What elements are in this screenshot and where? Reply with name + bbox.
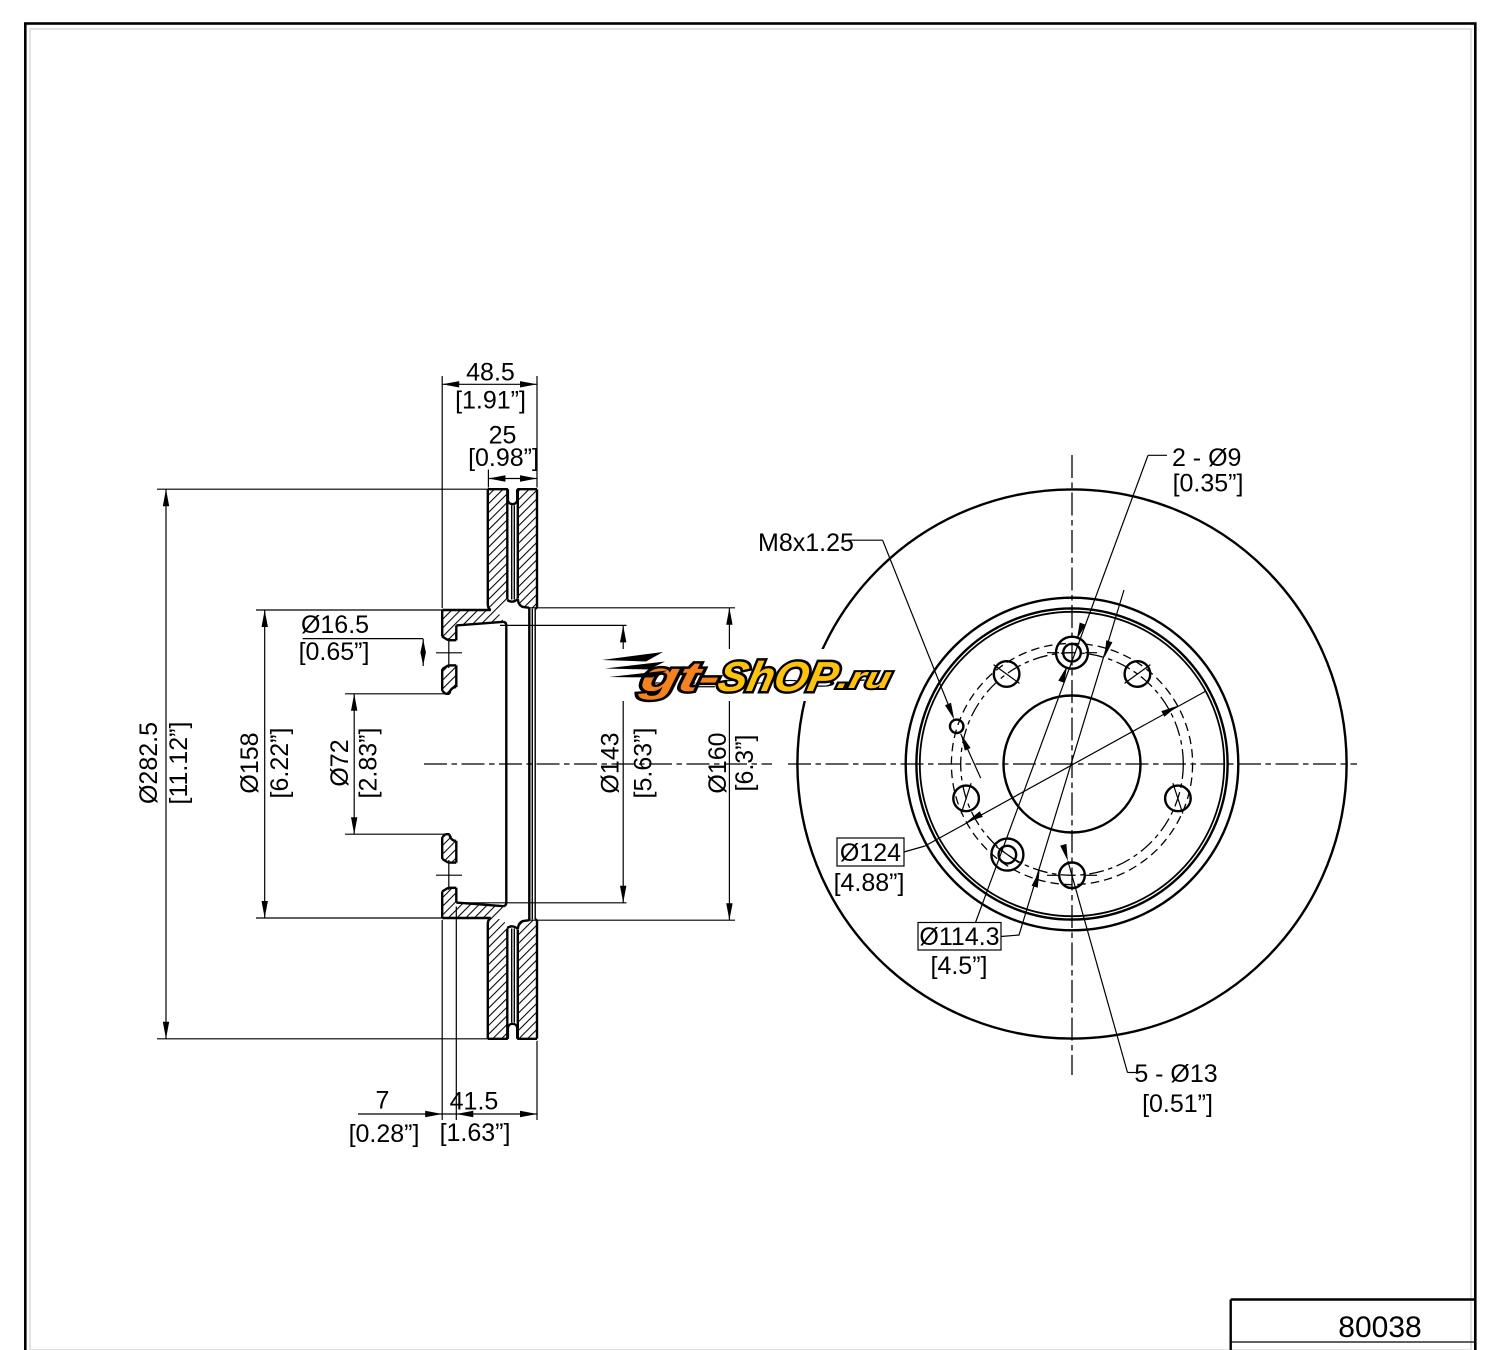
bore fillet [450,687,457,694]
dim dia160 drum lip [529,607,735,609]
svg-text:[0.51”]: [0.51”] [1142,1090,1213,1118]
centermark tick in lug hole 54 deg [1125,665,1151,684]
upper bolt hole centermark [436,652,462,654]
flange top edge [442,917,491,919]
svg-text:[1.91”]: [1.91”] [455,387,526,415]
svg-text:[11.12”]: [11.12”] [165,722,193,805]
svg-text:[5.63”]: [5.63”] [630,728,658,799]
lug hole dia13 at 342 deg [1165,786,1191,812]
arrow at M8 hole on dia124 [961,734,981,778]
svg-text:.ru: .ru [835,662,895,695]
dim dia72 bore [345,693,445,695]
svg-text:[2.83”]: [2.83”] [354,728,382,799]
centermark tick in lug hole 126 deg [994,665,1020,684]
circle dia158 [920,612,1224,916]
bottom hole centermark ticks [1047,874,1059,876]
svg-text:M8x1.25: M8x1.25 [758,529,854,557]
drum outer surface [528,608,530,920]
leader 2 - dia9 [1148,454,1167,456]
friction band inner circle [906,598,1239,931]
right view horizontal centerline [788,763,1357,765]
svg-text:[1.63”]: [1.63”] [440,1119,511,1147]
lug hole dia13 at 126 deg [994,661,1020,687]
section hatch: lower outboard friction plate [518,920,537,1039]
disc bottom edge [488,1038,508,1040]
svg-text:48.5: 48.5 [466,359,515,387]
svg-text:Ø160: Ø160 [704,732,732,793]
dim dia158 [256,609,442,611]
dim 48.5 overall width [441,376,443,608]
bolt hole walls [448,887,456,889]
section hatch: lower hat flange and wall [442,888,503,918]
dim dia114.3 diagonal [1001,590,1124,937]
vent slot floor [507,926,518,929]
svg-text:[0.28”]: [0.28”] [349,1120,420,1148]
svg-text:[0.98”]: [0.98”] [468,444,539,472]
logo speed lines [602,652,663,662]
leader 5 - dia13 [1128,1072,1141,1074]
lug hole dia13 at 270 deg [1059,863,1085,889]
centermark tick in lug hole 342 deg [1173,783,1183,813]
section hatch: upper hat flange and wall [442,610,503,640]
dim 7 flange offset [441,920,443,1120]
right view vertical centerline [1071,455,1073,1075]
hat wall inner face [455,625,457,640]
section hatch: upper hat wall below bolt hole [442,665,456,693]
dim dia124 diagonal [925,691,1206,846]
outer circle dia282.5 [797,489,1346,1038]
vent slot walls [506,489,508,599]
hat wall inner face [455,888,457,903]
svg-text:[0.65”]: [0.65”] [299,638,370,666]
svg-text:41.5: 41.5 [450,1088,499,1116]
outboard friction face [536,920,538,1039]
inboard friction face [487,924,489,1039]
drum lip inner edges [531,609,533,920]
vent vane edges [511,505,513,599]
disc top edge [488,488,508,490]
circle dia124 dashed [951,643,1192,884]
bolt circle dia114.3 dash-dot [961,653,1184,876]
centermark tick in lower-left service hole [996,847,1019,863]
section hatch: lower hat wall below bolt hole [442,834,456,862]
bore surface [445,693,449,695]
bore fillet [450,834,457,841]
dim dia143 drum opening [500,624,627,626]
vent slot neck to lip [518,920,530,929]
bore surface [445,833,449,835]
bore entry chamfer [442,834,445,837]
flange underside [456,622,503,626]
dim dia16.5 bolt hole [303,638,424,640]
svg-text:Ø114.3: Ø114.3 [919,923,999,951]
service hole dia9 lower-left [991,839,1023,871]
svg-text:Ø16.5: Ø16.5 [301,611,369,639]
dim 25 disc thickness [487,470,489,488]
svg-text:[6.3”]: [6.3”] [731,735,759,792]
svg-text:[6.22”]: [6.22”] [266,728,294,799]
inboard friction face [487,489,489,604]
back face edge dia143 [505,625,507,902]
flange top edge [442,609,491,611]
section hatch: upper outboard friction plate [518,489,537,608]
svg-text:[4.88”]: [4.88”] [834,869,905,897]
svg-text:Ø143: Ø143 [597,732,625,793]
hub bore circle dia72 [1004,696,1141,833]
svg-text:2 - Ø9: 2 - Ø9 [1172,444,1241,472]
section hatch: lower inboard friction plate [488,918,508,1039]
lower bolt hole centermark [436,874,462,876]
vent inlet groove [508,1024,517,1039]
hat mounting face [441,610,443,637]
lug hole dia13 at 198 deg [953,786,979,812]
svg-text:Ø158: Ø158 [236,732,264,793]
svg-text:80038: 80038 [1338,1311,1421,1344]
bolt hole walls [448,639,456,641]
section hatch: upper inboard friction plate [488,489,508,610]
title block [1229,1300,1231,1350]
svg-text:[0.35”]: [0.35”] [1173,469,1244,497]
vent slot floor [507,599,518,602]
flange underside [456,903,503,907]
vent slot walls [506,929,508,1039]
lug hole dia13 at 54 deg [1125,661,1151,687]
bolt hole chamfers [442,888,448,892]
svg-text:Ø282.5: Ø282.5 [135,722,163,804]
svg-text:5 - Ø13: 5 - Ø13 [1134,1060,1217,1088]
svg-text:[4.5”]: [4.5”] [931,952,988,980]
circle dia160 [916,608,1227,919]
left view axis centerline [424,763,772,765]
label dia114.3 boxed [918,923,1001,951]
bore entry chamfer [442,691,445,694]
centermark tick in lug hole 198 deg [961,783,971,813]
top hole centermark ticks [1047,652,1059,654]
service hole dia9 top [1056,637,1088,669]
gt-shop.ru watermark [601,649,897,701]
svg-text:ShOP: ShOP [714,653,844,699]
svg-text:7: 7 [376,1087,390,1115]
vent inlet groove [508,489,517,504]
bolt hole chamfers [442,637,448,641]
outboard friction face [536,489,538,608]
vent slot neck to lip [518,599,530,608]
dim dia282.5 outer diameter [157,488,488,490]
svg-text:Ø72: Ø72 [326,739,354,786]
leader M8x1.25 [848,539,883,541]
label dia124 boxed [904,846,925,852]
dim 41.5 [536,1041,538,1120]
svg-text:Ø124: Ø124 [840,839,901,867]
M8 threaded hole [950,720,963,733]
hat mounting face [441,892,443,919]
